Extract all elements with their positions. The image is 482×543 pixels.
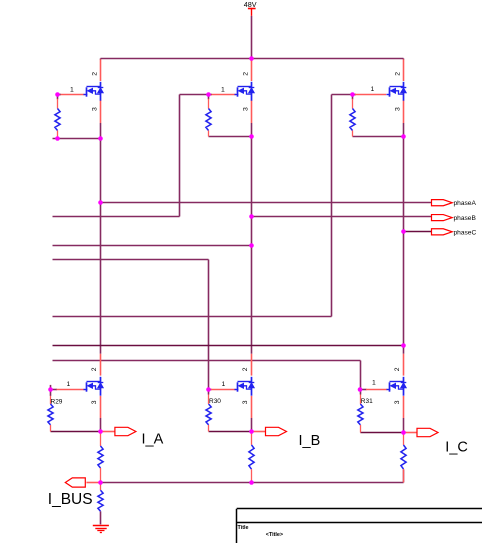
svg-text:2: 2	[91, 367, 98, 371]
svg-text:3: 3	[395, 107, 402, 111]
svg-text:2: 2	[243, 72, 250, 76]
svg-text:2: 2	[92, 72, 99, 76]
svg-text:2: 2	[242, 367, 249, 371]
svg-text:R31: R31	[361, 398, 373, 405]
svg-text:<Title>: <Title>	[266, 532, 283, 538]
svg-text:3: 3	[92, 107, 99, 111]
svg-text:3: 3	[242, 400, 249, 404]
svg-text:Title: Title	[238, 525, 249, 531]
svg-text:R30: R30	[209, 398, 221, 405]
svg-text:1: 1	[372, 380, 376, 387]
svg-text:48V: 48V	[244, 0, 257, 9]
svg-text:phaseA: phaseA	[454, 200, 477, 207]
svg-text:1: 1	[222, 381, 226, 388]
svg-text:1: 1	[70, 86, 74, 93]
svg-text:I_C: I_C	[445, 439, 468, 455]
svg-text:3: 3	[394, 400, 401, 404]
svg-text:2: 2	[394, 367, 401, 371]
svg-text:phaseC: phaseC	[454, 229, 477, 236]
svg-text:1: 1	[371, 86, 375, 93]
svg-text:I_A: I_A	[142, 432, 164, 448]
svg-text:3: 3	[91, 400, 98, 404]
svg-text:1: 1	[221, 87, 225, 94]
svg-text:I_B: I_B	[299, 433, 321, 449]
svg-text:I_BUS: I_BUS	[48, 491, 93, 508]
svg-text:R29: R29	[51, 398, 63, 405]
svg-text:3: 3	[243, 107, 250, 111]
svg-text:1: 1	[67, 381, 71, 388]
svg-text:phaseB: phaseB	[454, 215, 477, 222]
svg-text:2: 2	[395, 72, 402, 76]
